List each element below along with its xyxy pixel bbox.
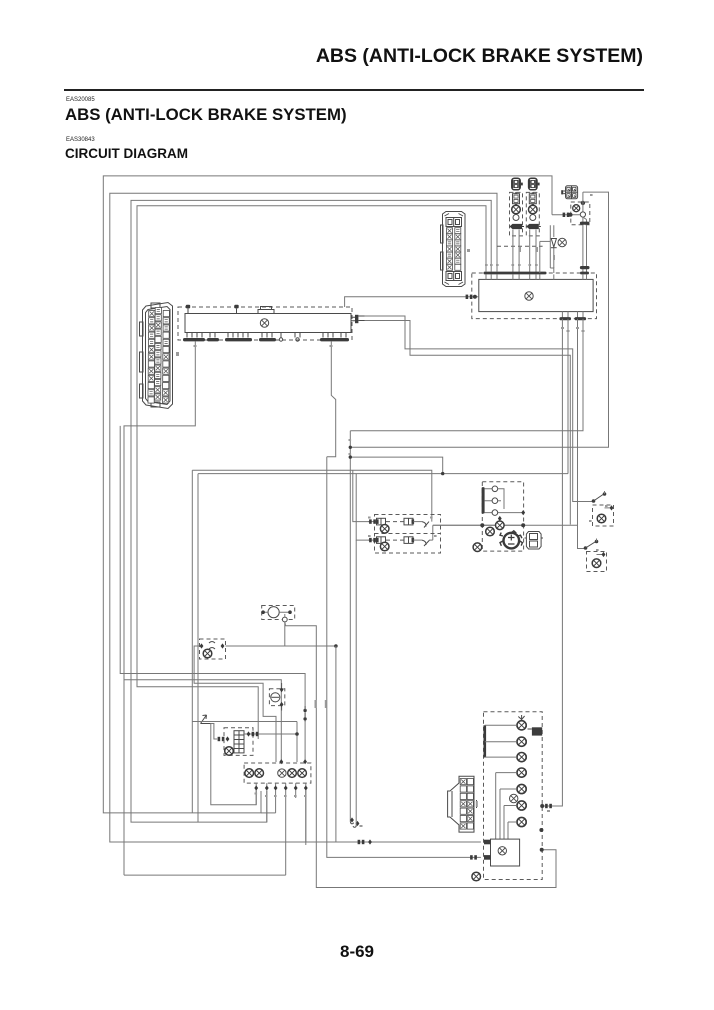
ABS ECU dashed box bbox=[472, 273, 597, 319]
meter lamp 7 bbox=[516, 817, 526, 826]
diode unit bbox=[540, 225, 567, 273]
ignition relay: junction dot bbox=[581, 201, 585, 205]
rear sensor bullet bbox=[380, 542, 389, 551]
terminal row bottom pins bbox=[256, 783, 306, 786]
wire loop L3 bbox=[131, 200, 491, 822]
sidestand junction ring bbox=[282, 617, 287, 622]
long line y=721.5 bbox=[192, 721, 297, 723]
meter dashed box bbox=[484, 712, 543, 880]
inline pair on ground wire bbox=[218, 737, 225, 741]
joint coupler pin down to meter wire bbox=[305, 790, 307, 842]
engine stop diode unit dashed box bbox=[269, 689, 284, 706]
wire from inline connector left bbox=[194, 646, 276, 762]
ignition relay: open junction circle bbox=[580, 212, 585, 217]
pin wire to L1 bottom bbox=[261, 812, 276, 814]
loose bullet lower left of relay bbox=[473, 543, 482, 552]
junction vertical x297 bbox=[296, 722, 298, 763]
row pin wires down bbox=[256, 790, 306, 875]
rear sensor riser left bbox=[356, 474, 371, 540]
main fuse box (2x2) bbox=[561, 186, 577, 199]
ignition relay cluster: dashed box bbox=[571, 202, 590, 225]
front sensor row connector pair bbox=[368, 518, 429, 527]
bus bar output wire zigzag down to meter bbox=[327, 341, 336, 456]
relay contact structure bbox=[485, 486, 524, 515]
ECU coupler A pin grid bbox=[148, 308, 169, 404]
meter feed cap (antenna symbol) bbox=[518, 715, 524, 725]
front wheel sensor row: dashed boxes bbox=[375, 515, 441, 534]
diode output wire to ECU bbox=[539, 241, 541, 273]
ECU coupler A (left 33-pin connector) bbox=[140, 303, 173, 409]
fuse column 1: splice arrow bbox=[510, 224, 525, 229]
fuse column 2: mini coupler bbox=[529, 192, 536, 205]
fuse column 1: dashed box bbox=[510, 192, 523, 236]
sidestand leads bbox=[262, 611, 292, 613]
terminal row circles bbox=[245, 769, 254, 778]
ABS motor relay dashed box bbox=[482, 482, 523, 551]
connector band on relay pair bbox=[580, 222, 590, 225]
ECU bottom pins pair 2 bbox=[578, 312, 584, 319]
ground arrow (frame earth) bbox=[201, 715, 211, 724]
junction on line bbox=[334, 644, 338, 648]
long line y=647.5 right segment bbox=[285, 645, 336, 647]
meter right edge junctions bbox=[540, 804, 544, 808]
fuse column 1: open ring bbox=[513, 215, 519, 221]
front sensor riser left bbox=[353, 470, 371, 521]
terminal row dashed box bbox=[244, 763, 311, 783]
bus bar top rib bbox=[258, 307, 274, 314]
meter lamp 5 bbox=[516, 784, 526, 793]
bottom line y=875 bbox=[124, 874, 286, 876]
diode unit pins bbox=[280, 687, 284, 692]
fuse column 1: mini coupler bbox=[513, 192, 520, 205]
ECU top pin stubs bbox=[486, 274, 587, 279]
long sensor feed vertical bbox=[349, 431, 351, 822]
bus bar inspection circle bbox=[260, 319, 268, 327]
splice bullet on relay line bbox=[496, 521, 505, 530]
wire bus-bar pair upper run bbox=[365, 316, 589, 502]
ABS ECU inspection circle bbox=[525, 292, 533, 300]
front sensor bullet bbox=[380, 525, 389, 534]
gray pair line P2 bbox=[198, 473, 568, 475]
fuse column 2: open ring bbox=[530, 215, 536, 221]
connector ticks on relay feed bbox=[563, 213, 570, 217]
ignition relay: vertical wire bbox=[582, 192, 584, 211]
wire from battery feed to right vertical bbox=[350, 192, 608, 447]
relay coil feed wire bbox=[350, 457, 442, 474]
long line to brake switches bbox=[433, 524, 578, 526]
rear brake switch bbox=[584, 539, 607, 572]
sidestand wire to meter loop bbox=[285, 622, 556, 888]
rear sensor row connector pair bbox=[368, 537, 433, 546]
fuse column 2: bullet connector bbox=[529, 205, 538, 214]
rear sensor left wire continues down bbox=[355, 540, 357, 825]
wire loop L1 bbox=[103, 176, 552, 813]
connector on meter feed wire1 bbox=[358, 840, 365, 844]
ECU pin wire left corner bbox=[350, 319, 583, 431]
meter coupler (side view) bbox=[448, 776, 477, 832]
bus bar bottom pin stubs bbox=[187, 333, 346, 338]
P2 left vertical bbox=[197, 474, 199, 822]
relay coil bullet bbox=[486, 527, 495, 536]
fuse column 2: splice arrow bbox=[526, 224, 541, 229]
sidestand switch circle bbox=[268, 607, 279, 618]
meter lamp 6 bbox=[516, 801, 526, 810]
connector band 2 on relay pair bbox=[580, 266, 590, 269]
terminal row top diamonds bbox=[279, 759, 283, 764]
bus bar top pin 2 bbox=[236, 309, 238, 314]
sidestand/clutch switch dashed box bbox=[262, 606, 295, 620]
relay box right diamond bbox=[521, 510, 525, 515]
vertical from junction to bottom wire1 bbox=[335, 646, 337, 842]
meter sub unit circle bbox=[498, 847, 506, 855]
wire colour code labels (faint) bbox=[176, 194, 608, 827]
meter lamp 1 (ABS warning) bbox=[516, 721, 526, 730]
engine stop diode circle bbox=[271, 693, 280, 702]
fuse F1 (ABS motor fuse) bbox=[511, 178, 522, 190]
wire from L1 to relay bbox=[552, 214, 580, 216]
wire loop L4 bbox=[137, 206, 486, 739]
ABS ECU top entry bar bbox=[484, 272, 547, 275]
ECU left pin wire from bus bar area bbox=[345, 297, 479, 307]
bus bar bottom connector bars bbox=[183, 338, 205, 341]
bus bar right-end pin to connector bbox=[351, 317, 355, 321]
ECU pin wire joining sensor line bbox=[567, 319, 569, 474]
fuse column 1: wire pair down bbox=[513, 230, 519, 274]
inline connector (clutch diode) bbox=[200, 639, 226, 659]
joint connector bus bar (dashed box) bbox=[178, 307, 352, 340]
meter splice bullet bbox=[510, 794, 518, 802]
relay frame dark bar bbox=[482, 487, 485, 513]
hook end 2 bbox=[353, 825, 356, 827]
bus bar top pin 1 bbox=[187, 309, 189, 314]
wire from block right bbox=[244, 733, 297, 735]
wire bus-bar pair lower run bbox=[365, 321, 571, 525]
meter lamp 4 bbox=[516, 768, 526, 777]
wire from bus bar pin down-left (to left loop) bbox=[124, 341, 281, 762]
wire loop L2 bbox=[110, 193, 497, 842]
rear sensor riser right bbox=[432, 525, 434, 540]
joint connector bus bar body bbox=[185, 314, 351, 333]
junction dots right of diode unit bbox=[303, 709, 306, 712]
connector on ECU left wire bbox=[466, 295, 473, 299]
staircase wire S1 bbox=[120, 426, 305, 762]
ECU pin wire to rear brake switch bbox=[578, 319, 585, 549]
meter lamp bus (dark) bbox=[483, 725, 486, 757]
loose bullet below meter bbox=[472, 872, 481, 881]
terminal block component bbox=[224, 728, 253, 756]
relay output pair down bbox=[583, 217, 587, 272]
meter lamp 3 bbox=[516, 753, 526, 762]
ECU pin wire to meter input 1 bbox=[542, 319, 562, 806]
hook end 1 bbox=[350, 822, 354, 824]
coupler C pin grid bbox=[447, 228, 461, 271]
gray pair line P1 bbox=[192, 470, 431, 521]
fuse F2 (ABS ECU fuse) bbox=[528, 178, 539, 190]
long relay line (to meter area) bbox=[433, 524, 483, 526]
ECU bottom pins pair 1 bbox=[562, 312, 568, 319]
meter LCD dark block bbox=[532, 727, 542, 735]
meter lamp 2 bbox=[516, 737, 526, 746]
coupler C (18-pin grid connector top right) bbox=[441, 212, 466, 287]
junction dot on feed vertical bbox=[349, 446, 352, 449]
P1 left vertical bbox=[191, 470, 193, 813]
ground wire to terminal row bbox=[211, 724, 217, 740]
sidestand wire to inline connector bbox=[226, 622, 285, 646]
meter internal wires to lamps 4-7 bbox=[496, 773, 516, 822]
motor coupler (2-cell oval) bbox=[525, 532, 544, 550]
fuse column 2: dashed box bbox=[526, 192, 539, 236]
meter sub unit left pins bbox=[484, 840, 491, 845]
junction dots on relay line bbox=[480, 523, 484, 527]
bus output wire continues to meter sub unit bbox=[327, 457, 481, 858]
meter sub unit box bbox=[491, 839, 520, 866]
ECU bottom connector bands bbox=[559, 317, 571, 320]
ignition relay: coil bullet bbox=[573, 205, 580, 212]
ground loop to row pin bbox=[211, 724, 256, 805]
fuse column 2: wire pair down bbox=[530, 230, 536, 274]
vertical x124 lower part bbox=[123, 680, 125, 875]
ABS motor bbox=[500, 531, 522, 549]
front brake switch bbox=[588, 491, 614, 526]
ABS ECU body bbox=[479, 279, 593, 311]
fuse column 1: bullet connector bbox=[512, 205, 521, 214]
